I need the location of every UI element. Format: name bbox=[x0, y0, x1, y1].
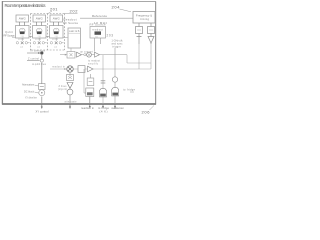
svg-text:I Q: I Q bbox=[95, 36, 98, 38]
svg-text:out: out bbox=[54, 46, 57, 49]
svg-text:amplify: amplify bbox=[88, 63, 99, 66]
svg-text:to qubit lines: to qubit lines bbox=[32, 63, 47, 66]
svg-text:Room temperature electronics: Room temperature electronics bbox=[5, 3, 46, 8]
svg-text:LO RF: LO RF bbox=[18, 39, 25, 41]
svg-text:readout: readout bbox=[92, 28, 103, 31]
svg-text:to fridge: to fridge bbox=[123, 88, 136, 92]
svg-text:up convert: up convert bbox=[80, 50, 93, 53]
svg-text:LO RF: LO RF bbox=[52, 39, 59, 41]
svg-text:204: 204 bbox=[112, 5, 121, 10]
svg-text:timing: timing bbox=[140, 17, 150, 21]
svg-text:202: 202 bbox=[70, 9, 79, 14]
svg-text:out: out bbox=[37, 46, 40, 49]
svg-text:Frequency &: Frequency & bbox=[136, 13, 152, 17]
svg-text:I Q: I Q bbox=[38, 36, 41, 38]
svg-text:(4 K): (4 K) bbox=[100, 109, 108, 113]
svg-text:Z control: Z control bbox=[28, 57, 39, 60]
svg-text:RF Source: RF Source bbox=[63, 21, 78, 25]
svg-text:AWG: AWG bbox=[53, 17, 60, 21]
svg-text:206: 206 bbox=[142, 110, 151, 115]
svg-text:readout in: readout in bbox=[81, 106, 95, 110]
svg-text:x: x bbox=[56, 29, 58, 31]
svg-text:XY control out: XY control out bbox=[30, 49, 45, 52]
svg-text:trigger: trigger bbox=[112, 46, 121, 49]
svg-text:XY drive line: XY drive line bbox=[25, 97, 38, 100]
svg-text:Attenuators: Attenuators bbox=[22, 84, 35, 87]
svg-text:I Q: I Q bbox=[55, 36, 58, 38]
svg-text:Reference: Reference bbox=[92, 14, 107, 18]
svg-text:201: 201 bbox=[50, 7, 58, 12]
svg-text:readout out: readout out bbox=[112, 106, 124, 110]
svg-text:AWG: AWG bbox=[19, 17, 26, 21]
svg-text:I Q: I Q bbox=[21, 36, 24, 38]
svg-text:switch: switch bbox=[69, 29, 80, 33]
svg-text:RF Source: RF Source bbox=[90, 23, 106, 27]
svg-text:(cryo in): (cryo in) bbox=[58, 88, 67, 91]
svg-text:x: x bbox=[22, 29, 24, 31]
svg-text:DC block: DC block bbox=[24, 91, 35, 94]
svg-text:RF Source: RF Source bbox=[4, 33, 16, 37]
svg-text:XY control: XY control bbox=[36, 110, 49, 114]
svg-text:to fridge: to fridge bbox=[98, 106, 110, 110]
svg-text:attenuate: attenuate bbox=[65, 100, 78, 103]
svg-text:x: x bbox=[39, 29, 41, 31]
svg-text:LO RF: LO RF bbox=[35, 39, 42, 41]
svg-text:AWG: AWG bbox=[36, 17, 43, 21]
svg-text:203: 203 bbox=[107, 34, 114, 38]
svg-text:out: out bbox=[20, 46, 23, 49]
svg-text:readout in: readout in bbox=[52, 65, 66, 68]
